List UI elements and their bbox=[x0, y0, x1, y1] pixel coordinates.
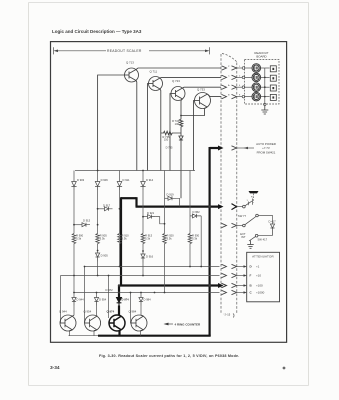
resistor R900 bbox=[72, 234, 76, 245]
arrow annotation bbox=[244, 147, 249, 149]
indicator square 2 bbox=[270, 75, 276, 81]
svg-text:Q 733: Q 733 bbox=[197, 88, 205, 92]
svg-text:°J–15: °J–15 bbox=[224, 313, 231, 317]
svg-text:4 RING COUNTER: 4 RING COUNTER bbox=[175, 322, 202, 326]
lamp filament glyphs bbox=[255, 67, 258, 70]
column D954 bbox=[96, 293, 98, 298]
diode D917 bbox=[105, 207, 113, 211]
svg-text:D 972: D 972 bbox=[106, 288, 114, 292]
attenuator rows bbox=[250, 265, 265, 295]
wire D952 corner down bbox=[200, 216, 202, 267]
thick wire Q974 emitter bbox=[118, 331, 120, 336]
arrow 4 ring counter bbox=[164, 323, 169, 326]
diode D903 bbox=[71, 182, 76, 191]
wire Q723 emitter down to junction bbox=[181, 99, 183, 116]
svg-text:÷1: ÷1 bbox=[256, 265, 260, 269]
attenuator box bbox=[247, 252, 280, 301]
wire Q711 emitter down bbox=[159, 89, 162, 171]
column R930 bbox=[189, 171, 191, 234]
wire Q711 collector to readout row 2 bbox=[160, 76, 221, 79]
diode D916 bbox=[141, 254, 145, 263]
wire D417 to SW417 bbox=[258, 235, 273, 237]
connector row INT arrows bbox=[222, 223, 237, 227]
rail D921 segment bbox=[143, 216, 148, 218]
lamp B743 bbox=[252, 92, 261, 101]
thick wire Q974 branch bbox=[118, 286, 120, 298]
column Q974 base bbox=[108, 276, 110, 319]
diode D974 bold bbox=[117, 298, 122, 306]
svg-text:D 954: D 954 bbox=[99, 298, 107, 302]
svg-text:READOUT SCALER: READOUT SCALER bbox=[107, 49, 142, 53]
switch SW417 wiper bbox=[249, 237, 255, 241]
svg-text:Q 954: Q 954 bbox=[84, 310, 92, 314]
resistor R910 bbox=[118, 234, 122, 245]
schematic border box bbox=[51, 42, 287, 343]
svg-text:3.3k: 3.3k bbox=[122, 237, 128, 241]
resistor R913 bbox=[141, 234, 145, 245]
svg-text:Q 974: Q 974 bbox=[107, 310, 115, 314]
wire row 3 to lamp terminal bbox=[237, 86, 242, 88]
svg-text:D 417: D 417 bbox=[269, 220, 277, 224]
svg-text:3.3k: 3.3k bbox=[167, 237, 173, 241]
ground ext int switch bbox=[247, 241, 253, 249]
thick wire upper bus bbox=[121, 197, 137, 199]
thick highlighted current path bbox=[98, 147, 219, 336]
svg-text:÷10: ÷10 bbox=[256, 274, 261, 278]
emitter stubs bottom transistors bbox=[69, 331, 71, 336]
svg-text:100: 100 bbox=[175, 122, 180, 126]
svg-text:D 903: D 903 bbox=[77, 178, 85, 182]
transistor Q711 bbox=[149, 77, 163, 91]
switch INT wiper bbox=[245, 217, 256, 225]
bold arrow switch feed bbox=[218, 204, 224, 209]
bold second arrow switch feed bbox=[232, 204, 237, 210]
svg-text:Q 713: Q 713 bbox=[126, 61, 134, 65]
switch SW77 wiper bbox=[245, 201, 252, 206]
terminal row 2 bbox=[242, 76, 245, 79]
resistor R930 bbox=[188, 234, 192, 245]
connector row 3 arrows bbox=[222, 85, 227, 89]
wire Q711 base corner down bbox=[148, 84, 149, 171]
connector row 2 arrows bbox=[222, 75, 227, 79]
rail attenuator row C bbox=[74, 292, 220, 294]
connector hook mark bbox=[233, 314, 234, 318]
svg-text:FROM SW421: FROM SW421 bbox=[257, 150, 276, 154]
rail attenuator row D bbox=[85, 266, 220, 268]
column D911 R910 bbox=[119, 171, 121, 182]
wire D921 corner bbox=[155, 217, 164, 224]
column D984 bbox=[140, 293, 142, 298]
svg-text:D 916: D 916 bbox=[146, 254, 154, 258]
diode D911 bbox=[117, 182, 122, 191]
wire D919 left bbox=[165, 197, 169, 199]
attenuator connector arrows bbox=[222, 264, 237, 294]
diode D735 bbox=[179, 131, 183, 198]
thick wire corner drop bbox=[135, 197, 137, 206]
column D914 R913 D916 bbox=[142, 171, 144, 182]
arrowheads into attenuator bbox=[244, 265, 247, 294]
svg-text:3-34: 3-34 bbox=[50, 365, 60, 371]
diode D914 bbox=[140, 182, 145, 191]
bold arrow attenuator feed bbox=[218, 283, 224, 288]
column Q984 base bbox=[130, 293, 133, 324]
thick wire auto power horizontal bbox=[210, 147, 219, 149]
diode D954 bbox=[94, 298, 98, 306]
wire row 1 to lamp terminal bbox=[237, 67, 242, 69]
svg-text:Fig. 3-30. Readout Scaler curr: Fig. 3-30. Readout Scaler current paths … bbox=[99, 354, 240, 358]
ground readout board bbox=[261, 106, 268, 114]
switch common contact bbox=[256, 214, 259, 217]
svg-text:÷1000: ÷1000 bbox=[256, 291, 265, 295]
thick wire switch feed bbox=[136, 206, 219, 208]
terminal bottom of lamp bus bbox=[264, 103, 266, 105]
wire to switch SW77 bbox=[237, 206, 243, 208]
diode D905 bbox=[96, 253, 100, 262]
indicator square 1 bbox=[270, 66, 276, 72]
switch bar chassis blob bbox=[249, 191, 259, 193]
lamp bus vertical bbox=[264, 68, 266, 103]
svg-text:150: 150 bbox=[164, 138, 169, 142]
bottom transistor labels bbox=[59, 310, 137, 314]
pin letters top rows bbox=[228, 66, 241, 97]
diode D913 bbox=[82, 223, 90, 227]
wire D919 to thick bus bbox=[176, 198, 180, 206]
diode D921 bbox=[148, 215, 156, 219]
svg-text:÷100: ÷100 bbox=[256, 284, 263, 288]
switch pin ticks bbox=[248, 199, 252, 206]
svg-text:D 917: D 917 bbox=[103, 203, 111, 207]
svg-text:D 984: D 984 bbox=[144, 298, 152, 302]
svg-text:3.3k: 3.3k bbox=[145, 237, 151, 241]
svg-text:SW 77: SW 77 bbox=[238, 214, 247, 218]
square glyphs bbox=[272, 68, 274, 70]
resistor R735 bbox=[161, 131, 181, 135]
diode D952 bbox=[193, 214, 202, 218]
diode D919 bbox=[168, 196, 176, 200]
column R920 bbox=[164, 171, 166, 234]
svg-text:D 913: D 913 bbox=[83, 219, 91, 223]
svg-text:D 919: D 919 bbox=[167, 192, 175, 196]
transistor Q954 bbox=[85, 315, 101, 331]
wire terminals to lamps bbox=[245, 67, 252, 69]
rail top bus bbox=[75, 170, 195, 172]
lamp B713 bbox=[252, 64, 261, 73]
terminal row 3 bbox=[242, 86, 245, 89]
svg-text:D 906: D 906 bbox=[101, 178, 109, 182]
junction dots lamp bus bbox=[264, 77, 266, 98]
svg-text:EXT: EXT bbox=[240, 232, 246, 236]
interconnect dashed line left bbox=[220, 54, 222, 314]
svg-text:Q 723: Q 723 bbox=[172, 79, 180, 83]
interconnect dashed line right bbox=[236, 63, 238, 315]
readout scaler dimension line bbox=[54, 47, 210, 54]
junction dots bbox=[73, 115, 211, 294]
lamp B723 bbox=[252, 73, 261, 82]
svg-text:D 905: D 905 bbox=[101, 253, 109, 257]
column D903 R900 bbox=[73, 171, 75, 182]
wire Q713 emitter down bbox=[135, 81, 138, 171]
svg-text:SW 417: SW 417 bbox=[258, 238, 268, 242]
svg-text:D 974: D 974 bbox=[122, 298, 130, 302]
indicator square 4 bbox=[270, 94, 276, 100]
diode D417 bbox=[270, 224, 274, 236]
rail bottom thin bbox=[69, 335, 99, 337]
terminal row 1 bbox=[242, 67, 245, 70]
svg-text:D 914: D 914 bbox=[146, 178, 154, 182]
switch INT contact bbox=[243, 224, 246, 227]
svg-text:D 944: D 944 bbox=[77, 298, 85, 302]
stubs to indicator squares bbox=[265, 67, 270, 69]
readout board dashed box bbox=[245, 60, 280, 105]
thick wire main vertical bbox=[209, 147, 211, 336]
column Q944 base bbox=[59, 276, 62, 324]
indicator square 3 bbox=[270, 85, 276, 91]
svg-text:D 921: D 921 bbox=[147, 211, 155, 215]
bold arrow auto power bbox=[218, 146, 224, 151]
wire connector to annotation bbox=[237, 147, 245, 149]
connector row 4 arrows bbox=[222, 94, 227, 98]
svg-text:3.3k: 3.3k bbox=[192, 237, 198, 241]
registered mark dot bbox=[283, 367, 286, 370]
transistor Q974 bold bbox=[109, 315, 125, 331]
terminal row 4 bbox=[242, 95, 245, 98]
svg-text:Logic and Circuit Description: Logic and Circuit Description — Type 3A3 bbox=[52, 29, 142, 34]
diode D984 bbox=[139, 298, 143, 306]
diode D906 bbox=[95, 182, 100, 191]
connector row 1 arrows bbox=[222, 66, 227, 70]
rail D952 segment bbox=[190, 215, 193, 217]
svg-text:BOARD: BOARD bbox=[256, 55, 266, 59]
page edge lines bbox=[29, 3, 309, 386]
resistor R905 bbox=[96, 234, 100, 245]
wire Q733 base corner down bbox=[194, 101, 195, 171]
transistor Q723 bbox=[171, 87, 185, 101]
wire Q733 collector to readout row 4 bbox=[208, 94, 222, 97]
transistor Q713 bbox=[125, 68, 139, 82]
svg-text:D 952: D 952 bbox=[193, 210, 201, 214]
grid labels bbox=[76, 178, 200, 302]
thick wire left vertical bbox=[120, 197, 122, 285]
wires into attenuator bbox=[237, 266, 244, 268]
lamp B733 bbox=[252, 83, 261, 92]
wire common to D417 bbox=[258, 216, 272, 225]
svg-text:F: F bbox=[250, 274, 252, 278]
column Q954 base bbox=[84, 267, 86, 324]
wire Q713 collector to readout row 1 bbox=[136, 68, 221, 70]
thin arrows row auto power bbox=[232, 146, 237, 150]
wire row INT bbox=[237, 225, 243, 227]
transistor Q984 bbox=[131, 315, 147, 331]
svg-text:ATTENUATOR: ATTENUATOR bbox=[252, 255, 274, 259]
transistor Q944 bbox=[60, 315, 76, 331]
svg-text:INT: INT bbox=[241, 235, 246, 239]
svg-text:Q 711: Q 711 bbox=[150, 69, 158, 73]
svg-text:D 735: D 735 bbox=[166, 146, 173, 150]
cable sweep dashed diagonal bbox=[222, 54, 238, 63]
svg-text:3.3k: 3.3k bbox=[100, 237, 106, 241]
thin arrow row B left bbox=[222, 283, 227, 287]
svg-text:3.3k: 3.3k bbox=[76, 237, 82, 241]
switch SW77 contact bbox=[243, 205, 246, 208]
svg-text:Q 984: Q 984 bbox=[129, 310, 137, 314]
transistor Q733 bbox=[195, 93, 211, 109]
wire Q713 base to corner bbox=[98, 75, 125, 171]
rail D917 segment bbox=[98, 208, 105, 210]
switch SW417 contact bbox=[255, 234, 258, 237]
svg-text:Q 944: Q 944 bbox=[59, 310, 67, 314]
thick wire attenuator feed bbox=[120, 284, 219, 286]
rail D913 segment bbox=[74, 224, 82, 226]
rail attenuator row F bbox=[61, 275, 220, 277]
svg-text:D 911: D 911 bbox=[123, 178, 130, 182]
thick wire bottom rail bbox=[98, 335, 211, 337]
wire row 2 to lamp terminal bbox=[237, 76, 242, 78]
wire row 4 to lamp terminal bbox=[237, 96, 242, 98]
column D906 R905 bbox=[97, 171, 99, 182]
wire Q723 base corner down bbox=[170, 94, 171, 171]
resistor R920 bbox=[163, 234, 167, 245]
resistor R734 bbox=[179, 116, 183, 132]
wire Q723 collector to readout row 3 bbox=[183, 86, 222, 89]
diode D944 bbox=[72, 298, 76, 306]
wire Q733 emitter to junction rail bbox=[181, 107, 207, 116]
connector arrows top rows bbox=[222, 66, 237, 99]
